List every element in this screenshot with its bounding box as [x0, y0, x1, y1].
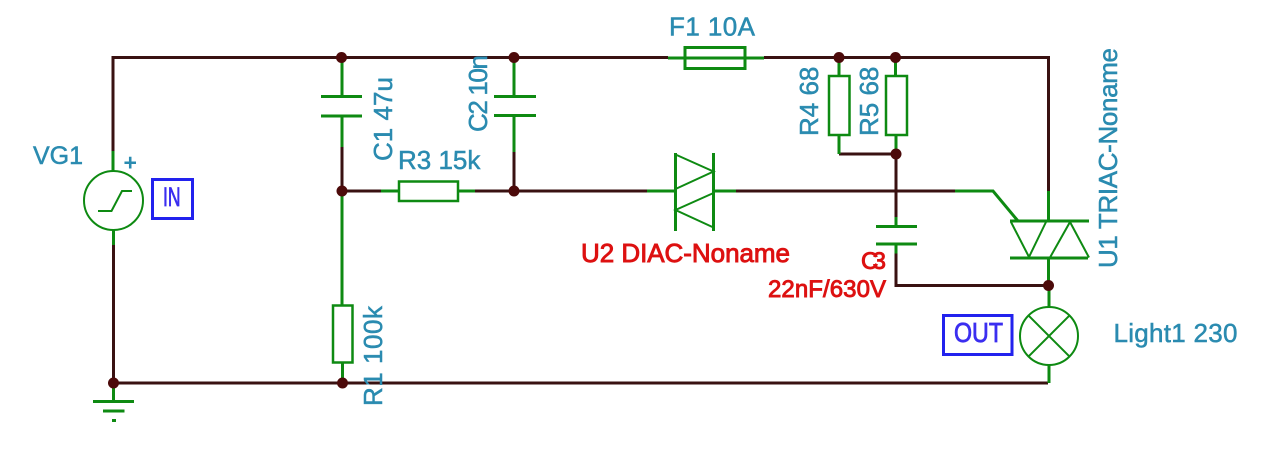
- resistor R5: [886, 59, 907, 154]
- svg-text:F1 10A: F1 10A: [669, 12, 756, 42]
- wire C2 bottom to middle node: [513, 152, 516, 191]
- wire top rail R4 node to R5 node: [839, 56, 896, 59]
- wire R5 bottom node down to C3: [895, 154, 898, 217]
- wire C3 bottom to TRIAC/lamp node: [896, 254, 1049, 286]
- wire bottom rail R1 node to lamp: [343, 382, 1049, 385]
- junction C2 top: [509, 52, 520, 63]
- junction R1 bottom node: [337, 378, 348, 389]
- wire VG1 bottom to ground node: [112, 245, 115, 383]
- svg-text:OUT: OUT: [954, 317, 1003, 348]
- junction R4 top: [834, 52, 845, 63]
- junction R5 bottom node: [891, 149, 902, 160]
- svg-text:R1 100k: R1 100k: [358, 305, 388, 406]
- capacitor C2: [494, 59, 536, 152]
- wire C1 bottom lead to middle node: [341, 147, 344, 191]
- label OUT port box: [944, 316, 1013, 355]
- lamp Light1: [1020, 287, 1078, 383]
- svg-text:VG1: VG1: [33, 142, 83, 170]
- label IN port box: [153, 180, 193, 219]
- junction R5 top: [890, 52, 901, 63]
- fuse F1: [668, 48, 764, 69]
- capacitor C1: [321, 59, 362, 147]
- wire top rail C1 node to C2 node: [342, 56, 515, 59]
- wire top rail C2 node to fuse F1: [514, 56, 668, 59]
- diac U2: [647, 153, 736, 231]
- svg-text:C2 10n: C2 10n: [463, 55, 493, 132]
- svg-text:R4 68: R4 68: [794, 67, 824, 136]
- svg-text:C3: C3: [861, 248, 886, 275]
- svg-text:+: +: [124, 150, 137, 176]
- junction C1 bottom node: [337, 186, 348, 197]
- resistor R4: [829, 59, 850, 154]
- capacitor C3: [876, 217, 917, 254]
- junction C2 bottom node: [509, 186, 520, 197]
- junction C1 top: [336, 52, 347, 63]
- svg-text:Light1 230: Light1 230: [1114, 318, 1238, 348]
- junction TRIAC lamp node: [1043, 280, 1054, 291]
- svg-text:R3 15k: R3 15k: [398, 145, 481, 175]
- wire top rail R5 node to right corner down to TRIAC: [896, 58, 1049, 192]
- svg-text:C1 47u: C1 47u: [368, 77, 398, 161]
- wire R4 bottom to R5 bottom node: [839, 153, 896, 156]
- wire top-left riser and top rail to C1 node: [113, 58, 342, 152]
- wire bottom rail ground node to R1 node: [114, 382, 343, 385]
- voltage generator VG1: [84, 151, 143, 245]
- svg-text:U1 TRIAC-Noname: U1 TRIAC-Noname: [1093, 48, 1123, 268]
- svg-text:22nF/630V: 22nF/630V: [768, 276, 886, 303]
- svg-text:R5 68: R5 68: [854, 67, 884, 136]
- svg-text:IN: IN: [163, 182, 181, 212]
- wire middle node to DIAC U2: [514, 190, 647, 193]
- wire top rail fuse F1 to R4 node: [764, 56, 839, 59]
- junction ground node: [108, 378, 119, 389]
- resistor R1: [333, 193, 353, 383]
- wire DIAC U2 to TRIAC gate lead: [736, 190, 955, 193]
- wire middle node to R3 left: [342, 190, 381, 193]
- svg-text:U2 DIAC-Noname: U2 DIAC-Noname: [581, 238, 790, 268]
- wire R3 right to C2 node: [475, 190, 514, 193]
- resistor R3: [381, 182, 475, 202]
- ground: [93, 384, 134, 421]
- triac U1: [955, 191, 1089, 286]
